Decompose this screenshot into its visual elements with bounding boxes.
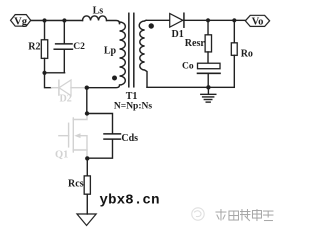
- diode D1: [170, 13, 184, 40]
- resistor R2: [28, 20, 47, 72]
- svg-text:Rcs: Rcs: [68, 178, 84, 189]
- svg-text:ybx8.cn: ybx8.cn: [99, 193, 159, 209]
- wire snubber bottom: [45, 72, 65, 74]
- diode D2: [52, 80, 85, 104]
- node drain junction: [85, 85, 89, 89]
- resistor Rcs: [68, 158, 90, 214]
- capacitor Cds: [87, 113, 138, 158]
- svg-text:Vg: Vg: [14, 16, 28, 27]
- svg-text:Resr: Resr: [185, 38, 206, 49]
- svg-text:R2: R2: [28, 42, 40, 53]
- polarity dot Lp: [112, 75, 117, 80]
- node Ro top: [232, 18, 236, 22]
- node source (Cds bottom): [85, 156, 89, 160]
- svg-text:N=Np:Ns: N=Np:Ns: [114, 101, 152, 111]
- inductor Ls: [83, 5, 107, 20]
- port Vg: [11, 15, 31, 28]
- wire snubber to D2: [45, 73, 52, 88]
- svg-text:C2: C2: [73, 42, 85, 52]
- svg-text:Ls: Ls: [93, 5, 104, 16]
- wire Ls to Lp: [107, 20, 120, 23]
- transformer T1 secondary winding: [139, 20, 147, 87]
- svg-text:Lp: Lp: [104, 46, 117, 57]
- port Vo: [245, 15, 269, 27]
- ground secondary (4-bar): [201, 87, 216, 102]
- svg-text:D2: D2: [59, 93, 71, 104]
- node C2 top: [62, 18, 66, 22]
- transformer core: [128, 13, 130, 87]
- svg-text:Cds: Cds: [121, 133, 138, 144]
- wire secondary bottom: [147, 86, 234, 88]
- svg-text:D1: D1: [172, 29, 184, 40]
- wire D1 to Vo: [184, 19, 245, 21]
- node Resr top: [206, 18, 210, 22]
- node R2 top: [42, 18, 46, 22]
- wire top primary: [31, 19, 83, 21]
- svg-text:Co: Co: [182, 61, 194, 71]
- mosfet Q1: [55, 114, 87, 161]
- svg-text:Vo: Vo: [252, 17, 264, 28]
- node drain (Cds top): [85, 111, 89, 115]
- resistor Resr: [185, 20, 212, 63]
- svg-text:Q1: Q1: [55, 149, 68, 160]
- node ground: [206, 85, 210, 89]
- watermark company text: [216, 210, 273, 221]
- capacitor C2: [54, 20, 85, 72]
- wire secondary top: [146, 19, 170, 21]
- node snubber: [42, 71, 46, 75]
- capacitor Co: [182, 61, 220, 87]
- svg-text:T1: T1: [126, 91, 138, 102]
- svg-text:Ro: Ro: [241, 48, 253, 59]
- wire drain vertical: [86, 88, 88, 114]
- resistor Ro: [231, 20, 253, 87]
- polarity dot secondary: [149, 23, 154, 28]
- ground primary (triangle): [77, 214, 96, 226]
- watermark logo: [192, 208, 204, 220]
- transformer T1 primary winding Lp: [87, 22, 126, 88]
